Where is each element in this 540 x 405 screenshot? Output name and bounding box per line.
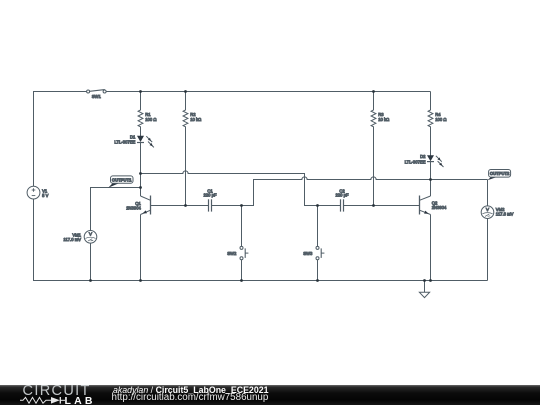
- svg-text:100 Ω: 100 Ω: [435, 117, 446, 122]
- node SW3 top: [316, 204, 319, 207]
- switch SW1: [87, 90, 107, 93]
- wire top rail right (SW1 to R4): [106, 91, 431, 93]
- capacitor C1: [209, 199, 212, 211]
- footer line 1: [113, 385, 269, 395]
- ground: [419, 281, 429, 298]
- wire C2 right plate to Q2 base: [344, 205, 420, 207]
- resistor R3: [371, 92, 376, 206]
- logo squiggle + diode: [20, 396, 66, 405]
- resistor R2: [183, 92, 188, 206]
- voltmeter VM1: [84, 231, 97, 281]
- svg-text:SW1: SW1: [92, 94, 102, 99]
- node ground: [423, 279, 426, 282]
- flag OUTPUT1: [108, 176, 133, 188]
- resistor R4: [428, 92, 433, 156]
- svg-text:LTL-307EE: LTL-307EE: [405, 159, 426, 164]
- node R2 bottom / Q1 base: [184, 204, 187, 207]
- capacitor C2: [341, 199, 344, 211]
- voltmeter VM2: [481, 180, 494, 281]
- svg-text:220 pF: 220 pF: [203, 193, 216, 198]
- svg-text:117.0 mV: 117.0 mV: [63, 237, 81, 242]
- svg-text:LTL-307EE: LTL-307EE: [114, 140, 135, 145]
- wire bottom rail: [34, 199, 488, 281]
- node SW2 bottom: [240, 279, 243, 282]
- wire top rail left (V1 to SW1): [34, 92, 87, 187]
- logo CIRCUIT: [23, 383, 91, 399]
- node Q1 emitter bottom: [139, 279, 142, 282]
- LED D2: [427, 155, 444, 196]
- svg-text:2N3904: 2N3904: [126, 205, 141, 210]
- node Q2 emitter bottom: [429, 279, 432, 282]
- node R2 top: [184, 90, 187, 93]
- switch SW3 (pushbutton): [316, 206, 324, 281]
- node SW3 bottom: [316, 279, 319, 282]
- node Q1 collector lower: [139, 186, 142, 189]
- node Q1 collector upper: [139, 172, 142, 175]
- transistor Q1 (2N3904, mirrored: base right): [141, 174, 151, 281]
- transistor Q2 (2N3904, base left): [420, 196, 431, 281]
- svg-text:SW2: SW2: [227, 251, 237, 256]
- node VM1 bottom: [89, 279, 92, 282]
- svg-text:5 V: 5 V: [42, 193, 48, 198]
- wire Q1 collector net to C2 (hop over R2 lead): [141, 171, 341, 206]
- node SW2 top: [240, 204, 243, 207]
- svg-text:OUTPUT1: OUTPUT1: [112, 177, 132, 182]
- node R1 top: [139, 90, 142, 93]
- switch SW2 (pushbutton): [240, 206, 248, 281]
- svg-text:10 kΩ: 10 kΩ: [190, 117, 201, 122]
- svg-text:220 pF: 220 pF: [335, 193, 348, 198]
- node Q2 collector: [429, 178, 432, 181]
- wire Q1 base to C1 left plate: [151, 205, 209, 207]
- svg-text:117.8 mV: 117.8 mV: [496, 212, 514, 217]
- svg-text:OUTPUT2: OUTPUT2: [490, 171, 510, 176]
- LED D1: [137, 130, 154, 174]
- node R3 top: [372, 90, 375, 93]
- footer line 2: [112, 392, 269, 403]
- wire VM1 / OUTPUT1 to Q1 collector: [91, 188, 141, 231]
- svg-text:2N3904: 2N3904: [432, 205, 447, 210]
- svg-text:10 kΩ: 10 kΩ: [378, 117, 389, 122]
- svg-text:SW3: SW3: [303, 251, 313, 256]
- voltage source V1: [27, 186, 40, 199]
- node R3 bottom / Q2 base: [372, 204, 375, 207]
- footer bar: [0, 385, 540, 405]
- svg-text:100 Ω: 100 Ω: [145, 117, 156, 122]
- wire C1 right plate to riser and Q2 collector net (hops at 304.5, 373.5): [212, 177, 488, 206]
- flag OUTPUT2: [488, 170, 511, 181]
- resistor R1: [138, 92, 143, 131]
- logo LAB: [65, 395, 96, 405]
